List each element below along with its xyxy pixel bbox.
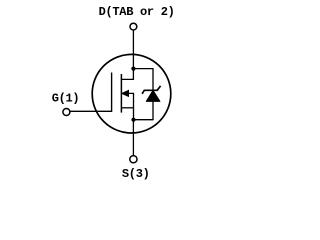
gate electrode bar [111,73,113,112]
diode D1 cathode bar with bent tips [142,86,161,94]
wire source node to diode anode branch [134,101,154,120]
terminal S (pin 3) [130,156,137,163]
wire drain to diode cathode branch [133,69,153,91]
body arrow (points to channel) [122,90,129,96]
svg-text:D(TAB or 2): D(TAB or 2) [99,5,175,19]
wire source lead [121,107,133,109]
wire drain: terminal to junction and down-left to channel [121,30,133,79]
svg-text:S(3): S(3) [122,167,150,181]
diode D1 (body-drain) anode triangle [146,91,159,102]
svg-text:G(1): G(1) [52,91,80,105]
node drain junction dot [131,67,135,71]
terminal D (pin TAB or 2) [130,23,137,30]
wire body lead to source node [128,93,133,119]
terminal G (pin 1) [63,109,70,116]
node source junction dot [131,118,135,122]
wire gate lead [70,110,112,112]
wire source down to terminal [132,120,134,156]
transistor Q1 envelope circle [92,54,171,133]
channel bar [120,74,122,113]
